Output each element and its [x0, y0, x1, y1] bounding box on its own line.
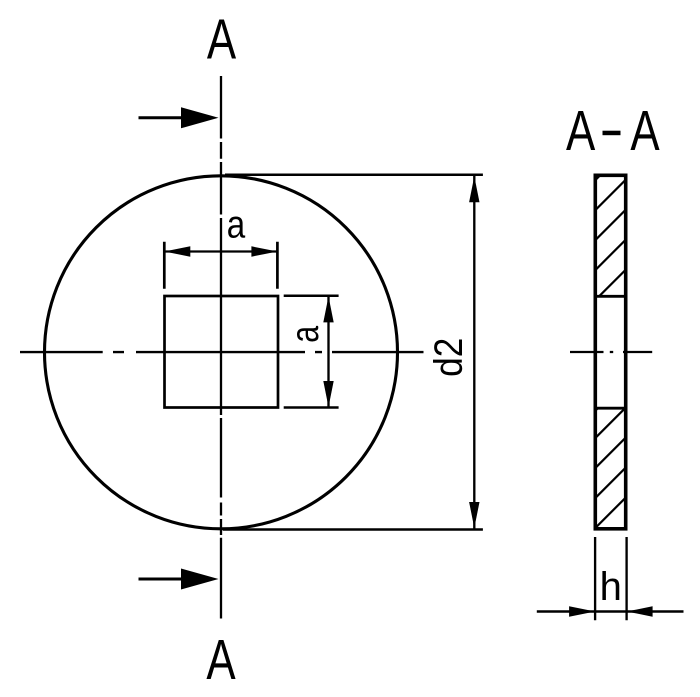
svg-text:a: a [283, 325, 326, 342]
dimension a (horizontal) : dimension line [164, 250, 277, 252]
dimension d2 : dimension line [473, 176, 475, 529]
svg-text:A: A [630, 99, 659, 163]
dimension a (vertical) : top arrowhead [323, 296, 333, 322]
svg-text:a: a [227, 202, 246, 246]
section view centerline [570, 351, 652, 353]
svg-text:A: A [566, 99, 595, 163]
dimension d2 : bottom arrowhead [469, 502, 479, 528]
dimension h : extension lines [595, 537, 627, 620]
dimension a (vertical) : bottom arrowhead [323, 381, 333, 407]
dimension d2 : extension lines [223, 175, 483, 530]
svg-text:d2: d2 [426, 338, 471, 377]
svg-text:A: A [207, 7, 236, 71]
dimension a (horizontal) : left arrowhead [164, 246, 190, 256]
section view direction arrow (top) [139, 107, 219, 128]
dimension a (vertical) : dimension line [327, 296, 329, 408]
section title A-A [566, 99, 660, 163]
svg-text:h: h [600, 565, 622, 609]
cutting plane line A-A (vertical) [220, 76, 222, 619]
section view: hole boundary lines [595, 296, 625, 408]
dimension h : left arrowhead [569, 606, 595, 616]
dimension a (horizontal, top of square) : extension lines [164, 242, 277, 289]
square hole [165, 296, 279, 408]
horizontal centerline [20, 351, 424, 353]
dimension a (horizontal) : right arrowhead [251, 246, 277, 256]
section view: hatching bottom [594, 378, 628, 529]
washer outer circle d2 [45, 176, 398, 529]
dimension h : right arrowhead [627, 606, 653, 616]
section view: hatching top [594, 147, 628, 301]
dimension a (vertical, right of square) : extension lines [284, 296, 339, 408]
dimension h : dimension line [537, 610, 684, 612]
section view: washer body outline [595, 175, 625, 529]
svg-text:A: A [206, 627, 235, 691]
section view direction arrow (bottom) [139, 569, 219, 590]
dimension d2 : top arrowhead [469, 176, 479, 202]
